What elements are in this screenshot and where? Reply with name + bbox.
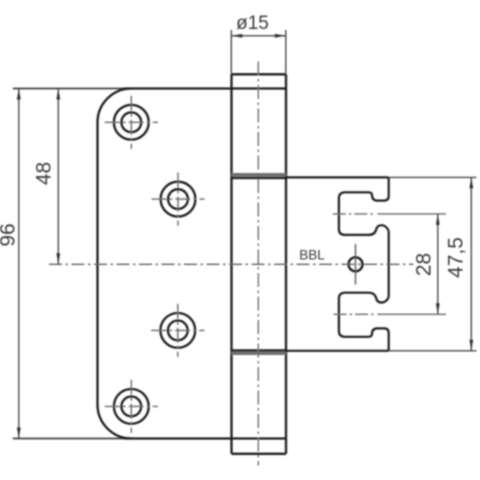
dimension 48 line with arrows: [57, 89, 59, 265]
screw hole 2 crosshair: [151, 173, 204, 226]
barrel knuckle joint upper (dark line): [232, 177, 287, 179]
screw hole 3 crosshair: [151, 304, 204, 357]
screw hole 2 inner circle: [168, 189, 188, 209]
BBL reference hole circle: [349, 257, 363, 271]
frame bracket upper slot outline: [339, 192, 389, 235]
svg-text:47,5: 47,5: [445, 237, 468, 278]
barrel knuckle joint upper (gray gap line): [232, 173, 287, 177]
barrel left edge: [230, 74, 232, 454]
upper slot center line (28 extension): [333, 213, 374, 215]
screw hole 1 inner circle: [121, 112, 141, 132]
barrel knuckle joint lower (dark line): [232, 349, 287, 351]
svg-text:ø15: ø15: [236, 13, 269, 34]
dimension o15 line with arrows: [231, 35, 285, 37]
hinge leaf plate top edge with extension line: [13, 88, 286, 90]
dimension 96 line with arrows: [18, 89, 20, 439]
svg-text:28: 28: [413, 253, 436, 276]
screw hole 3 outer circle: [160, 313, 195, 348]
screw hole 4 crosshair: [105, 380, 158, 433]
screw hole 4 outer circle: [114, 389, 149, 424]
barrel top edge: [232, 73, 287, 75]
screw hole 2 outer circle: [161, 182, 196, 217]
screw hole 1 crosshair: [105, 96, 158, 149]
barrel bottom edge: [232, 453, 287, 455]
dimension 47,5 extension lines: [389, 177, 477, 350]
svg-text:BBL: BBL: [299, 248, 325, 263]
lower slot center line (28 extension): [334, 313, 374, 315]
frame bracket top edge: [286, 176, 389, 178]
frame bracket lower slot outline: [339, 293, 389, 337]
dimension 28 line with arrows: [437, 214, 439, 314]
barrel knuckle joint lower (gray gap line): [232, 351, 287, 355]
BBL hole vertical center line: [355, 244, 357, 285]
hinge leaf plate bottom edge with extension line: [13, 438, 286, 440]
screw hole 3 inner circle: [168, 321, 188, 341]
barrel center line (dash-dot): [257, 62, 259, 466]
frame bracket right edge segments: [388, 177, 390, 350]
svg-text:48: 48: [33, 162, 56, 185]
BBL center line (dash-dot): [49, 263, 414, 265]
screw hole 4 inner circle: [121, 397, 141, 417]
svg-text:96: 96: [0, 223, 20, 246]
dimension o15 extension lines: [231, 30, 285, 74]
barrel right edge: [285, 74, 287, 454]
dimension 47,5 line with arrows: [470, 177, 472, 350]
screw hole 1 outer circle: [114, 105, 149, 140]
hinge leaf plate left edge and rounded corners: [98, 89, 132, 439]
frame bracket bottom edge: [286, 350, 389, 352]
